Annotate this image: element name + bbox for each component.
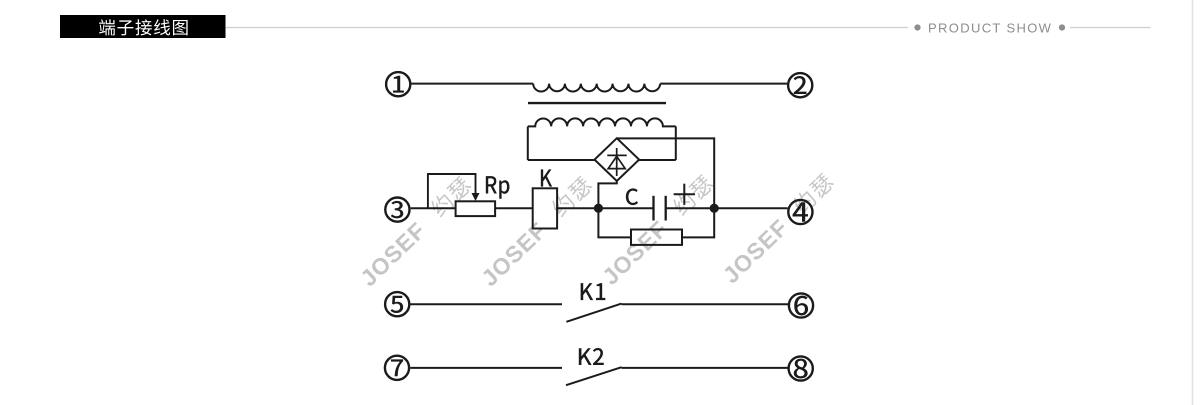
wire terminal 7 to switch K2 — [410, 367, 562, 369]
wire terminal 3 to Rp — [411, 207, 456, 209]
wire secondary rail left — [528, 159, 596, 161]
wire capacitor to node B — [666, 207, 715, 209]
switch K1 blade — [566, 304, 621, 322]
transformer core — [528, 102, 666, 104]
potentiometer Rp body — [456, 201, 496, 216]
page right border — [1192, 0, 1194, 405]
Rp wiper arm — [428, 174, 476, 208]
label K — [541, 169, 552, 186]
relay coil K body — [533, 188, 557, 228]
terminal 8 — [789, 356, 813, 380]
label K1 — [581, 283, 594, 300]
product-show bullet right — [1059, 24, 1065, 30]
bridge diode symbol — [616, 148, 618, 176]
product-show bullet left — [914, 24, 920, 30]
terminal 6 — [789, 293, 813, 317]
transformer primary winding — [533, 84, 660, 92]
svg-text:JOSEF: JOSEF — [718, 214, 794, 288]
resistor R1 (parallel with C) — [631, 230, 682, 245]
svg-text:PRODUCT SHOW: PRODUCT SHOW — [928, 21, 1052, 36]
terminal 1 — [386, 72, 410, 96]
wire terminal 5 to switch K1 — [411, 303, 563, 305]
switch K2 blade — [566, 367, 622, 385]
header rule right — [1070, 27, 1151, 29]
wire terminal1 to primary coil — [411, 83, 533, 85]
watermark JOSEF约瑟 #3 — [597, 171, 718, 289]
wire resistor R1 to node B — [682, 208, 714, 237]
terminal 5 — [385, 292, 409, 316]
label C — [626, 188, 638, 205]
transformer secondary winding — [528, 118, 676, 126]
label Rp — [486, 176, 497, 193]
node A junction — [594, 204, 603, 213]
wire primary coil to terminal 2 — [660, 83, 787, 85]
wire secondary rail right — [639, 159, 676, 161]
label K2 — [579, 348, 592, 365]
terminal 3 — [385, 198, 409, 222]
wire secondary left lead — [527, 126, 529, 160]
capacitor C plates — [652, 196, 654, 221]
wire bridge bottom corner to node A — [598, 181, 616, 208]
wire bridge top corner to node B — [618, 138, 715, 208]
terminal 2 — [788, 73, 812, 97]
node B junction — [710, 204, 719, 213]
wire switch K1 to terminal 6 — [622, 303, 789, 305]
watermark JOSEF约瑟 #2 — [476, 173, 597, 291]
header rule left — [226, 27, 909, 29]
wire node B to terminal 4 — [714, 207, 787, 209]
terminal 4 — [788, 200, 812, 224]
wire node A down to resistor R1 — [598, 208, 631, 237]
watermark JOSEF约瑟 #4 — [718, 170, 839, 288]
wire secondary right lead — [675, 126, 677, 160]
header title bar 端子接线图 — [60, 15, 226, 38]
svg-text:JOSEF: JOSEF — [597, 215, 673, 289]
wire switch K2 to terminal 8 — [622, 367, 788, 369]
terminal 7 — [385, 356, 409, 380]
wire Rp to relay coil K — [495, 207, 533, 209]
plus polarity mark — [674, 193, 695, 195]
bridge rectifier U1 diamond — [595, 138, 640, 181]
wire K to node A — [557, 207, 653, 209]
svg-text:JOSEF: JOSEF — [355, 217, 431, 291]
watermark JOSEF约瑟 #1 — [355, 173, 476, 291]
